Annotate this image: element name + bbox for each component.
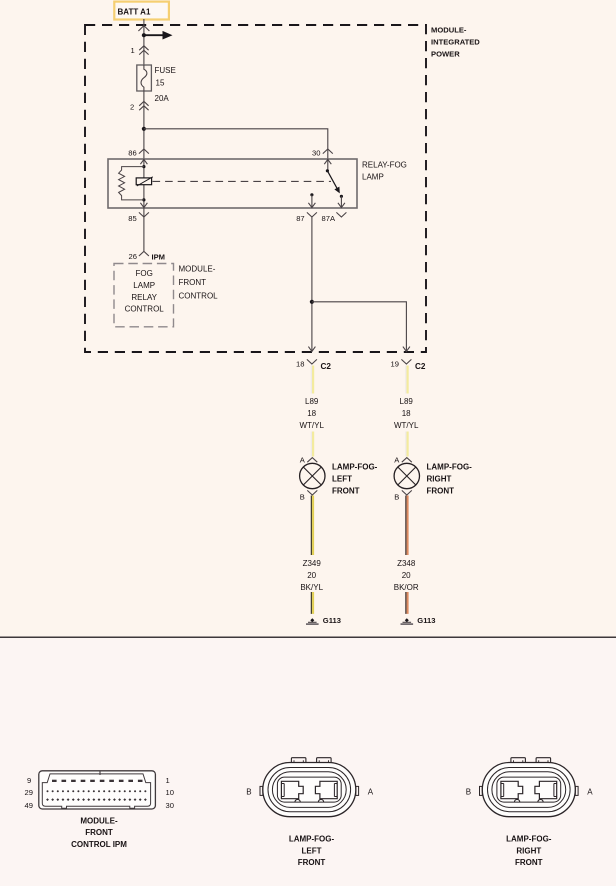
svg-text:CONTROL IPM: CONTROL IPM <box>71 840 127 849</box>
section separator line <box>0 636 616 638</box>
svg-text:1: 1 <box>166 776 170 785</box>
svg-text:IPM: IPM <box>152 252 166 261</box>
wire Z348 20 BK/OR <box>394 496 419 614</box>
junction dots on coil wire <box>142 165 145 201</box>
svg-text:B: B <box>300 493 305 502</box>
svg-text:19: 19 <box>391 359 399 368</box>
svg-text:20: 20 <box>402 571 411 580</box>
svg-text:LAMP-FOG-: LAMP-FOG- <box>427 463 473 472</box>
relay pin 87 stub <box>308 193 315 208</box>
wire fuse to relay <box>143 91 145 159</box>
lamp LAMP-FOG-LEFT FRONT <box>300 455 378 501</box>
terminal letters <box>246 788 373 797</box>
IPM pin row 10-29 <box>47 790 147 792</box>
connector face LAMP-FOG-LEFT FRONT <box>260 758 359 817</box>
svg-text:15: 15 <box>156 78 165 87</box>
fuse F? 15 20A <box>137 65 176 103</box>
junction dot <box>142 33 146 37</box>
svg-text:G113: G113 <box>323 616 341 625</box>
svg-text:LEFT: LEFT <box>332 475 352 484</box>
svg-text:BK/YL: BK/YL <box>300 583 323 592</box>
boundary arrow down at pin 19 <box>403 347 410 352</box>
label MODULE-FRONT CONTROL <box>179 264 219 300</box>
svg-text:CONTROL: CONTROL <box>125 305 165 314</box>
svg-text:20A: 20A <box>155 94 170 103</box>
svg-text:FRONT: FRONT <box>515 858 543 867</box>
relay coil feed wire (pin 86 to 85) <box>140 159 147 208</box>
index bumps <box>295 799 324 802</box>
svg-text:LAMP-FOG-: LAMP-FOG- <box>289 835 335 844</box>
terminal B cavity (LEFT) <box>281 781 303 798</box>
power feed box BATT A1 <box>114 2 169 20</box>
terminal A cavity (LEFT) <box>315 781 337 798</box>
relay coil <box>136 177 153 186</box>
connector face LAMP-FOG-RIGHT FRONT <box>480 758 579 817</box>
ground G113 (left) <box>306 616 341 625</box>
svg-text:INTEGRATED: INTEGRATED <box>431 38 480 47</box>
svg-text:18: 18 <box>402 409 411 418</box>
svg-text:30: 30 <box>312 149 320 158</box>
terminal A cavity (RIGHT) <box>535 781 557 798</box>
svg-text:LEFT: LEFT <box>302 846 322 855</box>
svg-text:FUSE: FUSE <box>155 66 176 75</box>
fog lamp relay control dashed box <box>114 264 174 327</box>
label LAMP-FOG-RIGHT FRONT <box>506 835 552 867</box>
relay pin 85 <box>128 208 149 251</box>
svg-text:29: 29 <box>25 788 33 797</box>
svg-text:CONTROL: CONTROL <box>179 291 219 300</box>
label LAMP-FOG-LEFT FRONT <box>289 835 335 867</box>
ground G113 (right) <box>401 616 436 625</box>
relay pin 87A label <box>322 212 347 223</box>
background upper section <box>0 0 616 637</box>
svg-text:L89: L89 <box>305 397 319 406</box>
svg-text:RELAY-FOG: RELAY-FOG <box>362 160 407 169</box>
wire L89 18 WT/YL (left) <box>299 366 324 457</box>
svg-text:BK/OR: BK/OR <box>394 583 419 592</box>
svg-text:FRONT: FRONT <box>85 828 113 837</box>
lamp LAMP-FOG-RIGHT FRONT <box>394 455 472 501</box>
inline connector pin 2 (double chevron) <box>130 101 149 111</box>
relay pin 86 <box>128 149 149 158</box>
relay pin 87 label <box>296 212 317 223</box>
junction dot output branch <box>310 300 314 304</box>
svg-text:FRONT: FRONT <box>427 487 455 496</box>
svg-text:G113: G113 <box>417 616 435 625</box>
svg-text:85: 85 <box>128 214 136 223</box>
svg-text:18: 18 <box>307 409 316 418</box>
svg-text:RIGHT: RIGHT <box>427 475 452 484</box>
svg-text:LAMP: LAMP <box>362 172 384 181</box>
terminal B cavity (RIGHT) <box>501 781 523 798</box>
svg-text:10: 10 <box>166 788 174 797</box>
svg-text:B: B <box>394 493 399 502</box>
relay box RELAY-FOG LAMP <box>108 159 407 208</box>
wire relay 87 to C2 pin 18 <box>311 217 313 352</box>
svg-text:49: 49 <box>25 801 33 810</box>
junction dot to relay branch <box>142 127 146 131</box>
svg-text:RIGHT: RIGHT <box>516 846 541 855</box>
svg-text:RELAY: RELAY <box>131 293 157 302</box>
svg-text:L89: L89 <box>400 397 414 406</box>
boundary arrow down at pin 18 <box>308 347 315 352</box>
svg-text:POWER: POWER <box>431 50 460 59</box>
connector face MODULE-FRONT CONTROL IPM <box>39 771 156 809</box>
wire branch to relay pin 30 <box>144 129 328 159</box>
svg-text:FRONT: FRONT <box>179 278 207 287</box>
wire L89 18 WT/YL (right) <box>394 366 419 457</box>
IPM pin row 30-49 <box>46 798 147 801</box>
svg-text:LAMP-FOG-: LAMP-FOG- <box>332 463 378 472</box>
svg-text:Z349: Z349 <box>303 559 322 568</box>
svg-text:Z348: Z348 <box>397 559 416 568</box>
IPM pin row 1-9 <box>52 780 143 782</box>
wire from BATT A1 to fuse <box>143 19 145 65</box>
svg-text:86: 86 <box>128 149 136 158</box>
svg-text:C2: C2 <box>321 362 332 371</box>
svg-text:20: 20 <box>307 571 316 580</box>
svg-text:WT/YL: WT/YL <box>394 421 419 430</box>
boundary crossing arrow (up) <box>138 26 149 31</box>
inline connector pin 1 (double chevron) <box>131 46 149 55</box>
index bumps <box>515 799 544 802</box>
background lower section <box>0 637 616 886</box>
svg-text:FRONT: FRONT <box>298 858 326 867</box>
connector C2 pin 19 <box>391 359 426 370</box>
svg-text:1: 1 <box>131 46 135 55</box>
branch arrow to right <box>144 31 173 40</box>
wire branch to C2 pin 19 <box>312 302 407 352</box>
svg-text:WT/YL: WT/YL <box>299 421 324 430</box>
svg-text:87: 87 <box>296 214 304 223</box>
IPM pin labels <box>25 776 174 810</box>
relay suppression resistor <box>119 167 144 200</box>
coil-to-switch dashed link <box>153 180 332 182</box>
relay pin 30 <box>312 149 333 158</box>
relay pin 87A stub <box>338 195 345 208</box>
svg-text:A: A <box>587 788 593 797</box>
relay switch arm (to 87A) <box>327 171 339 194</box>
svg-text:MODULE-: MODULE- <box>431 26 467 35</box>
svg-text:LAMP-FOG-: LAMP-FOG- <box>506 835 552 844</box>
relay switch common from pin 30 <box>324 159 331 172</box>
svg-text:MODULE-: MODULE- <box>80 816 118 825</box>
svg-text:26: 26 <box>129 252 137 261</box>
svg-text:BATT A1: BATT A1 <box>118 8 151 17</box>
terminal letters <box>466 788 594 797</box>
svg-text:2: 2 <box>130 103 134 112</box>
svg-text:MODULE-: MODULE- <box>179 264 216 273</box>
svg-text:87A: 87A <box>322 214 336 223</box>
svg-text:FRONT: FRONT <box>332 487 360 496</box>
IPM pin 26 <box>129 251 166 261</box>
svg-text:30: 30 <box>166 801 174 810</box>
module-integrated power boundary box <box>85 25 426 352</box>
svg-text:B: B <box>246 788 251 797</box>
label MODULE-FRONT CONTROL IPM <box>71 816 127 849</box>
svg-text:A: A <box>368 788 374 797</box>
svg-text:B: B <box>466 788 471 797</box>
svg-text:9: 9 <box>27 776 31 785</box>
svg-text:FOG: FOG <box>136 269 153 278</box>
svg-text:18: 18 <box>296 359 304 368</box>
label MODULE-INTEGRATED POWER <box>431 26 480 59</box>
svg-text:C2: C2 <box>415 362 426 371</box>
svg-text:LAMP: LAMP <box>133 281 155 290</box>
connector C2 pin 18 <box>296 359 331 370</box>
wire Z349 20 BK/YL <box>300 496 323 614</box>
